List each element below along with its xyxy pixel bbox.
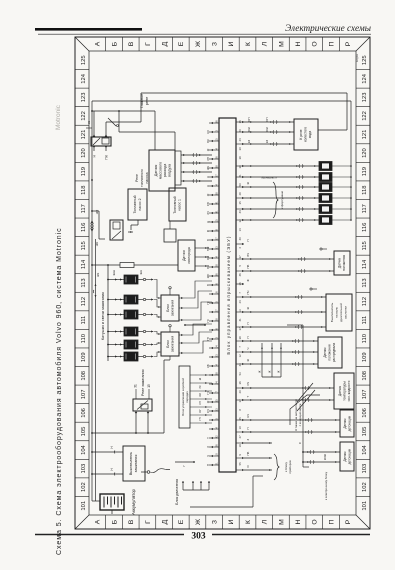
grid column numbers bottom: [356, 55, 370, 510]
svg-text:ЗЧ: ЗЧ: [206, 211, 210, 215]
svg-text:холостого: холостого: [304, 127, 308, 142]
svg-text:положения: положения: [328, 344, 332, 361]
svg-text:38: 38: [238, 336, 242, 339]
svg-text:102: 102: [362, 482, 368, 492]
svg-text:24: 24: [238, 138, 242, 141]
svg-text:120: 120: [81, 148, 87, 158]
svg-text:И: И: [228, 41, 235, 46]
svg-text:112: 112: [362, 297, 368, 306]
svg-text:положения: положения: [342, 255, 346, 272]
wire gearbox unit pins: [190, 374, 212, 424]
svg-text:ЗС: ЗС: [198, 385, 202, 389]
svg-text:З: З: [212, 42, 219, 46]
svg-text:106: 106: [362, 408, 368, 418]
svg-text:В: В: [128, 41, 135, 46]
wire instrument rows: [244, 442, 272, 471]
svg-text:38: 38: [238, 156, 242, 159]
svg-text:А: А: [95, 41, 102, 46]
wire air mass meter pins: [181, 153, 212, 182]
svg-text:Б: Б: [206, 284, 210, 286]
ECU pin numbers top row: [215, 120, 219, 465]
svg-text:303: 303: [191, 532, 206, 542]
wire ignition relay pin 31: [134, 384, 138, 433]
svg-text:Ж: Ж: [195, 518, 202, 525]
injector V4: [319, 183, 352, 192]
svg-text:расхода: расхода: [163, 164, 167, 178]
svg-text:ЖК: ЖК: [96, 272, 100, 277]
svg-text:температуры: температуры: [343, 381, 347, 401]
instrument brace: [274, 454, 279, 480]
injector V1: [319, 216, 352, 225]
svg-text:ОК: ОК: [198, 393, 202, 397]
wire switch feed 2: [92, 446, 123, 454]
svg-text:Ж: Ж: [246, 307, 250, 310]
svg-text:Реле зажигания: Реле зажигания: [141, 370, 145, 396]
ignition power stage B: [161, 325, 179, 357]
svg-text:113: 113: [362, 278, 368, 287]
svg-text:Ф: Ф: [206, 230, 210, 232]
svg-text:КЧ: КЧ: [246, 414, 250, 418]
svg-text:107: 107: [81, 390, 87, 400]
svg-text:Ж: Ж: [195, 40, 202, 47]
svg-text:Е: Е: [178, 519, 185, 524]
svg-text:ЖК: ЖК: [95, 242, 99, 247]
svg-text:СЧ: СЧ: [206, 409, 210, 413]
svg-text:М: М: [278, 519, 285, 525]
wire rail 15 right: [94, 93, 347, 130]
svg-text:насоса: насоса: [145, 172, 149, 183]
wire ignition feed contact: [108, 118, 119, 127]
svg-text:116: 116: [362, 223, 368, 232]
svg-text:14: 14: [238, 228, 242, 231]
main relay K1: [91, 137, 111, 146]
svg-text:Т: Т: [206, 437, 210, 439]
svg-text:110: 110: [362, 334, 368, 343]
svg-text:32: 32: [238, 219, 242, 222]
wire ecu bottom left: [175, 442, 302, 467]
svg-text:Ж: Ж: [246, 182, 250, 185]
wire frame ground tap: [86, 120, 92, 128]
wire relay branch b: [106, 93, 141, 127]
svg-text:БЧ: БЧ: [246, 253, 250, 257]
svg-text:30: 30: [238, 165, 242, 168]
fuel pump 2: [128, 189, 147, 220]
svg-text:Л: Л: [262, 42, 269, 46]
svg-text:КЗ: КЗ: [247, 140, 251, 144]
wire idle valve feeds: [243, 117, 294, 145]
svg-text:44: 44: [238, 210, 242, 213]
ignition coil T4: [124, 310, 146, 319]
svg-text:СП: СП: [247, 117, 251, 121]
svg-text:ГЖ: ГЖ: [105, 155, 109, 160]
svg-text:122: 122: [81, 111, 87, 121]
svg-text:104: 104: [362, 444, 368, 454]
svg-text:37: 37: [238, 327, 242, 330]
svg-text:31: 31: [134, 384, 138, 388]
svg-text:зажигания: зажигания: [171, 336, 175, 352]
svg-text:ЗП: ЗП: [206, 157, 210, 161]
svg-text:109: 109: [81, 352, 87, 362]
svg-text:Л: Л: [262, 520, 269, 524]
svg-text:Аккумулятор: Аккумулятор: [131, 488, 136, 514]
ECU pin numbers bottom row: [238, 120, 242, 465]
wire coil returns: [154, 280, 171, 361]
fuel pump relay K3: [110, 220, 123, 240]
ignition coil supply bus: [107, 265, 124, 361]
svg-text:116: 116: [81, 223, 87, 232]
svg-text:Н: Н: [206, 176, 210, 178]
throttle switch: [326, 294, 352, 331]
wire oxygen harness: [174, 260, 176, 279]
svg-text:детонации: детонации: [348, 448, 352, 464]
knock sensor 1: [340, 410, 354, 437]
injector V3: [319, 194, 352, 203]
wire fuel pump 2 link: [131, 220, 138, 230]
svg-text:топливного: топливного: [140, 169, 144, 187]
air mass meter B2: [149, 150, 175, 191]
svg-text:С: С: [298, 442, 302, 444]
svg-text:Выключатель: Выключатель: [330, 302, 334, 322]
svg-text:106: 106: [81, 408, 87, 418]
wire spark plug leads: [146, 278, 153, 357]
svg-text:117: 117: [362, 204, 368, 213]
svg-text:Блок управления впрыскиванием: Блок управления впрыскиванием (ЭБУ): [226, 235, 231, 354]
svg-text:12: 12: [238, 354, 242, 357]
svg-text:37: 37: [238, 399, 242, 402]
svg-text:37: 37: [238, 255, 242, 258]
svg-text:водян: водян: [355, 54, 359, 63]
svg-text:108: 108: [362, 371, 368, 381]
ground arrows engine block: [182, 481, 210, 507]
page number rule right: [212, 534, 370, 536]
svg-text:массового: массового: [159, 162, 163, 179]
svg-text:Г: Г: [145, 520, 152, 524]
svg-text:Б: Б: [111, 41, 118, 46]
svg-text:БЗ: БЗ: [206, 265, 210, 269]
svg-text:воздуха: воздуха: [168, 164, 172, 177]
wire harness to knock sensor 1: [243, 418, 340, 433]
wire relay branch c: [118, 110, 175, 188]
svg-text:36: 36: [238, 282, 242, 285]
wire auxiliary run: [287, 325, 309, 467]
svg-text:Ф: Ф: [246, 279, 250, 281]
grid column numbers top: [75, 55, 89, 510]
gearbox control unit: [179, 366, 190, 428]
wire rail 30 right: [92, 101, 351, 220]
svg-text:102: 102: [81, 482, 87, 492]
wire switch feed 1: [92, 468, 123, 476]
injector V6: [319, 162, 352, 171]
fuse F1: [92, 263, 178, 276]
svg-text:40: 40: [238, 237, 242, 240]
svg-text:115: 115: [362, 241, 368, 250]
svg-text:Motronic: Motronic: [55, 104, 62, 130]
svg-text:Ч: Ч: [206, 455, 210, 457]
svg-text:П: П: [246, 427, 250, 429]
svg-text:115: 115: [81, 241, 87, 250]
svg-text:110: 110: [81, 334, 87, 343]
svg-text:55: 55: [238, 462, 242, 465]
svg-text:111: 111: [362, 316, 368, 325]
svg-text:О: О: [312, 41, 319, 46]
svg-text:БК: БК: [206, 139, 210, 143]
svg-text:ОЖ: ОЖ: [265, 127, 269, 132]
svg-text:КЗ: КЗ: [206, 130, 210, 134]
svg-text:101: 101: [362, 501, 368, 511]
svg-text:101: 101: [81, 501, 87, 511]
svg-text:Датчик: Датчик: [182, 250, 186, 261]
svg-text:на валу: на валу: [335, 307, 339, 318]
drawing frame inner: [89, 51, 356, 515]
svg-text:ЗЖ: ЗЖ: [206, 255, 210, 260]
grid row letters right: [95, 37, 352, 51]
knock sensor 2: [340, 442, 354, 471]
svg-text:к тахометру: к тахометру: [261, 176, 277, 180]
crank position sensor: [334, 251, 350, 275]
ignition switch S1: [123, 446, 145, 481]
svg-text:насос 1: насос 1: [178, 199, 182, 211]
svg-text:О: О: [312, 519, 319, 524]
wire ignition bus riser: [91, 360, 170, 434]
wire junction link: [184, 324, 206, 326]
svg-text:Схема 5. Схема электрооборудов: Схема 5. Схема электрооборудования автом…: [55, 227, 63, 555]
battery G1: [100, 494, 124, 514]
svg-text:Р: Р: [345, 41, 352, 46]
injector V5: [319, 173, 352, 182]
svg-text:120: 120: [362, 148, 368, 158]
fuel pump 1: [169, 188, 186, 221]
wire relay branch a: [92, 111, 155, 150]
air mass meter pin strip: [175, 151, 181, 185]
coolant temperature sensor: [334, 373, 354, 409]
svg-text:105: 105: [362, 427, 368, 437]
svg-text:ЖК: ЖК: [206, 166, 210, 171]
grid row letters left: [95, 515, 352, 529]
svg-text:Ж: Ж: [206, 148, 210, 151]
wire bus connector symbols: [90, 210, 99, 247]
svg-text:123: 123: [362, 93, 368, 103]
svg-text:Реле: Реле: [135, 174, 139, 182]
svg-text:46: 46: [238, 273, 242, 276]
svg-text:50: 50: [238, 183, 242, 186]
auxiliary connector box: [164, 221, 176, 242]
svg-text:ОЖ: ОЖ: [247, 127, 251, 132]
svg-text:Топливный: Топливный: [133, 195, 137, 213]
svg-text:охл. жидкости: охл. жидкости: [347, 380, 351, 401]
svg-text:СБ: СБ: [206, 202, 210, 206]
svg-text:П: П: [246, 336, 250, 338]
wire main relay feeds: [93, 127, 109, 160]
svg-text:Ч: Ч: [246, 348, 250, 350]
injectors brace: [273, 182, 278, 218]
svg-text:125: 125: [81, 55, 87, 65]
ignition relay K2: [133, 399, 152, 411]
svg-text:Р: Р: [345, 519, 352, 524]
svg-text:Датчик: Датчик: [154, 164, 158, 176]
svg-text:113: 113: [81, 278, 87, 287]
svg-text:104: 104: [81, 444, 87, 454]
frame corner bevels: [75, 37, 370, 529]
svg-text:Н: Н: [295, 41, 302, 46]
oxygen sensor: [178, 240, 195, 271]
svg-text:Ж: Ж: [246, 359, 250, 362]
svg-text:41: 41: [238, 318, 242, 321]
svg-text:Ж: Ж: [206, 193, 210, 196]
svg-text:кислорода: кислорода: [187, 247, 191, 264]
svg-text:КЗ: КЗ: [265, 140, 269, 144]
svg-text:детонации: детонации: [348, 415, 352, 431]
svg-text:111: 111: [81, 316, 87, 325]
svg-text:П: П: [246, 239, 250, 241]
svg-text:ГК: ГК: [206, 301, 210, 305]
svg-text:зажигания: зажигания: [134, 455, 138, 473]
svg-text:Б: Б: [111, 519, 118, 524]
svg-text:З: З: [206, 446, 210, 448]
svg-text:зажигания: зажигания: [171, 300, 175, 316]
wire main supply bus: [91, 101, 100, 501]
wire ECU top pin stubs: [209, 122, 219, 466]
svg-text:125: 125: [362, 55, 368, 65]
svg-text:З: З: [212, 520, 219, 524]
svg-text:Катушки и свечи зажигания: Катушки и свечи зажигания: [101, 292, 105, 340]
svg-text:121: 121: [362, 130, 368, 140]
ignition coil T6: [124, 275, 146, 284]
svg-text:ГЧ: ГЧ: [206, 391, 210, 395]
svg-text:114: 114: [362, 259, 368, 269]
svg-text:ПБ: ПБ: [246, 451, 250, 455]
svg-text:31: 31: [87, 120, 91, 124]
svg-text:103: 103: [81, 464, 87, 474]
svg-text:Топливный: Топливный: [173, 196, 177, 214]
svg-text:Д: Д: [161, 41, 168, 46]
svg-text:к электронному блоку: к электронному блоку: [324, 471, 328, 500]
svg-text:10: 10: [238, 426, 242, 429]
svg-text:Н: Н: [206, 185, 210, 187]
wire oxygen sensor pins: [195, 247, 209, 267]
svg-text:Е: Е: [178, 41, 185, 46]
svg-text:19: 19: [238, 444, 242, 447]
svg-text:заслонки: заслонки: [344, 306, 348, 319]
svg-text:Ж: Ж: [206, 400, 210, 403]
ignition coil T1: [124, 352, 146, 361]
svg-text:Датчик: Датчик: [343, 451, 347, 462]
svg-text:35: 35: [238, 201, 242, 204]
wire ECU bottom stubs: [236, 121, 244, 471]
svg-text:24: 24: [238, 300, 242, 303]
svg-text:28: 28: [238, 192, 242, 195]
ignition coil T3: [124, 327, 146, 336]
wire gearbox harness links: [258, 343, 282, 377]
svg-text:Выключатель: Выключатель: [129, 452, 133, 475]
idle valve relay box: [294, 119, 318, 150]
svg-text:107: 107: [362, 390, 368, 400]
svg-text:насос 2: насос 2: [138, 198, 142, 210]
svg-text:К: К: [245, 42, 252, 46]
camshaft position sensor: [318, 337, 342, 368]
svg-text:30: 30: [238, 147, 242, 150]
svg-text:Датчик: Датчик: [338, 385, 342, 396]
svg-text:Датчик: Датчик: [338, 257, 342, 268]
svg-text:36: 36: [238, 381, 242, 384]
svg-text:А: А: [95, 519, 102, 524]
svg-text:КОЖ: КОЖ: [323, 453, 327, 460]
svg-text:Б: Б: [206, 239, 210, 241]
wire harness to coolant temp sensor: [243, 386, 334, 401]
wire to instrument cluster: [190, 476, 263, 507]
header thin rule: [38, 33, 371, 35]
svg-text:53: 53: [238, 372, 242, 375]
svg-text:распредвала: распредвала: [332, 343, 336, 362]
drawing frame outer: [75, 37, 370, 529]
svg-text:Датчик: Датчик: [343, 418, 347, 429]
ignition coil T5: [124, 295, 146, 304]
engine control unit ECU: [219, 118, 236, 472]
wire crossing branch: [243, 383, 320, 425]
svg-text:122: 122: [362, 111, 368, 121]
svg-text:П: П: [328, 519, 335, 524]
svg-text:хода: хода: [308, 131, 312, 138]
svg-text:ПЧ: ПЧ: [246, 290, 250, 294]
svg-text:Блок: Блок: [166, 304, 170, 312]
svg-text:СЛ: СЛ: [198, 401, 202, 405]
svg-text:П: П: [246, 322, 250, 324]
svg-text:СЧ: СЧ: [246, 382, 250, 386]
svg-text:Н: Н: [295, 519, 302, 524]
ignition coil T2: [124, 340, 146, 349]
svg-text:И: И: [228, 519, 235, 524]
svg-text:к форсункам: к форсункам: [280, 191, 284, 209]
svg-text:103: 103: [362, 464, 368, 474]
header thick rule: [35, 28, 142, 31]
svg-text:ПБ: ПБ: [246, 264, 250, 268]
svg-text:15: 15: [147, 384, 151, 388]
wire harness to throttle switch: [243, 288, 326, 329]
wire power stage A pins: [179, 281, 212, 321]
svg-text:ЖК: ЖК: [139, 270, 143, 275]
svg-text:ПЖ: ПЖ: [206, 246, 210, 251]
ignition power stage A: [161, 287, 179, 322]
svg-text:118: 118: [362, 186, 368, 195]
svg-text:передач: передач: [185, 391, 189, 403]
svg-text:Д: Д: [161, 519, 168, 524]
svg-text:27: 27: [238, 435, 242, 438]
svg-text:114: 114: [81, 259, 87, 269]
svg-text:В: В: [128, 519, 135, 524]
svg-text:16: 16: [238, 120, 242, 123]
svg-text:Блок: Блок: [166, 340, 170, 348]
svg-text:ЖШ: ЖШ: [112, 270, 116, 276]
wire power stage B pins: [179, 324, 212, 354]
svg-text:108: 108: [81, 371, 87, 381]
svg-text:119: 119: [362, 167, 368, 176]
svg-text:З: З: [246, 439, 250, 441]
svg-text:приборов: приборов: [288, 460, 292, 474]
wire second supply bus: [93, 239, 100, 501]
svg-text:Г: Г: [145, 42, 152, 46]
svg-text:Датчик: Датчик: [323, 347, 327, 358]
svg-text:К реле: К реле: [299, 129, 303, 139]
wire harness to camshaft sensor: [243, 339, 318, 365]
wire fuel pump relay feed: [92, 211, 133, 239]
svg-text:К: К: [245, 520, 252, 524]
svg-text:КУ: КУ: [198, 409, 202, 413]
wire colour codes top: [206, 130, 210, 466]
svg-text:44: 44: [238, 363, 242, 366]
wire switch output to engine block: [141, 469, 170, 474]
svg-text:ГЛ: ГЛ: [198, 417, 202, 420]
svg-text:20: 20: [238, 390, 242, 393]
svg-text:П: П: [328, 41, 335, 46]
